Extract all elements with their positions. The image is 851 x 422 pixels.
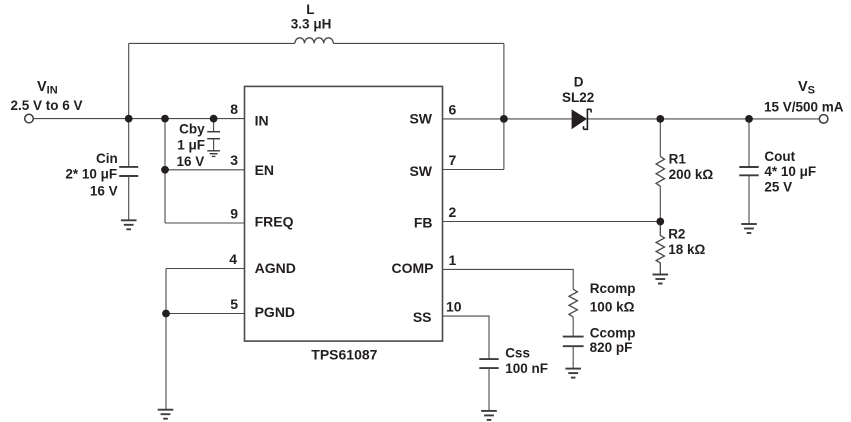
ground for Css — [481, 411, 497, 420]
svg-text:IN: IN — [255, 113, 269, 129]
svg-text:Cin: Cin — [96, 151, 118, 166]
resistor R1 zigzag — [656, 156, 664, 186]
wire: SW pin 7 — [443, 169, 504, 171]
diode D SL22 (schottky) — [572, 109, 592, 129]
svg-text:16 V: 16 V — [90, 183, 118, 198]
wire: AGND/PGND vertical to ground — [165, 269, 167, 410]
node: junction dot FB / R1 / R2 — [656, 218, 664, 226]
svg-text:AGND: AGND — [255, 260, 296, 276]
capacitor Ccomp plates — [563, 337, 584, 347]
svg-text:9: 9 — [230, 205, 238, 221]
svg-text:2* 10 μF: 2* 10 μF — [65, 167, 117, 182]
wire: VIN terminal to IC IN pin — [34, 118, 244, 120]
svg-text:FREQ: FREQ — [255, 213, 294, 229]
capacitor Css plates — [479, 359, 498, 368]
resistor R2 zigzag — [656, 222, 664, 275]
wire: vertical riser from input rail to top inductor rail — [128, 43, 130, 118]
svg-text:16 V: 16 V — [177, 154, 205, 169]
wire: Cin to ground — [128, 176, 130, 220]
terminal: VS output circle — [819, 115, 828, 124]
ground for Cout — [741, 224, 757, 233]
terminal: VIN input circle — [25, 114, 34, 123]
node: junction dot input rail / EN branch — [161, 115, 169, 123]
wire: Ccomp to ground — [572, 346, 574, 368]
svg-text:Css: Css — [505, 346, 530, 361]
svg-text:SL22: SL22 — [562, 90, 594, 105]
svg-text:Cby: Cby — [179, 121, 205, 136]
svg-text:Ccomp: Ccomp — [590, 326, 636, 341]
node: junction dot input rail / Cby — [210, 115, 218, 123]
inductor L (4 humps) — [295, 38, 333, 44]
svg-text:7: 7 — [449, 152, 457, 168]
svg-text:15 V/500 mA: 15 V/500 mA — [764, 99, 844, 114]
ground for Cin — [121, 220, 137, 229]
wire: FB pin to R1/R2 node — [443, 221, 660, 223]
wire: SW pin 6 to junction — [443, 118, 504, 120]
wire: Cout to ground — [748, 175, 750, 224]
svg-text:18 kΩ: 18 kΩ — [668, 242, 705, 257]
wire: R1 top stub — [659, 119, 661, 157]
node: junction dot PGND — [162, 310, 170, 318]
svg-text:3: 3 — [230, 152, 238, 168]
ground for R2 — [653, 275, 669, 284]
svg-text:820 pF: 820 pF — [590, 340, 633, 355]
svg-text:Cout: Cout — [764, 149, 795, 164]
svg-text:100 kΩ: 100 kΩ — [590, 299, 635, 314]
svg-text:SS: SS — [413, 309, 432, 325]
wire: AGND pin — [166, 268, 244, 270]
wire: EN pin — [165, 169, 244, 171]
op-amp: IC body TPS61087 — [245, 86, 443, 341]
wire: output rail junction to diode anode — [504, 118, 572, 120]
svg-text:1 μF: 1 μF — [177, 138, 205, 153]
ground for Ccomp — [565, 369, 581, 378]
svg-text:5: 5 — [230, 296, 238, 312]
node: junction dot output rail / R1 — [656, 115, 664, 123]
svg-text:R2: R2 — [668, 227, 685, 242]
wire: Cin branch down from input rail — [128, 119, 130, 167]
capacitor Cin plates — [119, 167, 138, 176]
svg-text:25 V: 25 V — [764, 179, 792, 194]
wire: top rail left of inductor — [129, 42, 295, 44]
ground for Cby (small) — [207, 151, 220, 157]
node: junction dot SW/output rail — [500, 115, 508, 123]
svg-text:PGND: PGND — [255, 304, 295, 320]
svg-text:TPS61087: TPS61087 — [311, 347, 377, 363]
capacitor Cout plates — [739, 167, 758, 175]
wire: FREQ pin — [165, 222, 244, 224]
svg-text:Rcomp: Rcomp — [590, 281, 636, 296]
svg-text:2: 2 — [449, 204, 457, 220]
svg-text:VIN: VIN — [37, 79, 58, 97]
node: junction dot input rail / riser — [125, 115, 133, 123]
node: junction dot EN branch — [161, 166, 169, 174]
svg-text:200 kΩ: 200 kΩ — [669, 167, 714, 182]
node: junction dot output rail / Cout — [745, 115, 753, 123]
svg-text:D: D — [574, 74, 584, 89]
wire: PGND pin — [166, 313, 244, 315]
svg-text:SW: SW — [409, 163, 432, 179]
resistor Rcomp zigzag — [569, 289, 577, 317]
svg-text:FB: FB — [414, 215, 433, 231]
svg-text:COMP: COMP — [392, 260, 434, 276]
svg-text:3.3 μH: 3.3 μH — [291, 16, 332, 31]
wire: top rail right of inductor — [333, 42, 504, 44]
wire: COMP pin to Rcomp — [443, 269, 573, 289]
capacitor Cby plates — [207, 132, 220, 139]
svg-text:R1: R1 — [669, 152, 687, 167]
ground for AGND/PGND — [158, 410, 174, 419]
wire: R1 bottom stub — [659, 186, 661, 222]
svg-text:VS: VS — [798, 79, 815, 97]
wire: Rcomp to Ccomp — [572, 317, 574, 337]
svg-text:1: 1 — [449, 252, 457, 268]
svg-text:100 nF: 100 nF — [505, 361, 548, 376]
svg-text:8: 8 — [230, 101, 238, 117]
wire: SS pin to Css — [443, 316, 489, 359]
svg-text:L: L — [306, 2, 314, 17]
svg-text:6: 6 — [449, 101, 457, 117]
svg-text:10: 10 — [446, 299, 462, 315]
wire: Css to ground — [488, 368, 490, 411]
svg-text:2.5 V to 6 V: 2.5 V to 6 V — [11, 98, 83, 113]
svg-text:4* 10 μF: 4* 10 μF — [764, 164, 816, 179]
wire: EN/FREQ branch vertical — [164, 119, 166, 223]
wire: Cby stub from input rail — [213, 119, 215, 132]
wire: Cout stub from output rail — [748, 119, 750, 167]
wire: Cby to small ground — [213, 139, 215, 151]
svg-text:SW: SW — [409, 111, 432, 127]
svg-text:4: 4 — [229, 251, 237, 267]
svg-text:EN: EN — [255, 162, 274, 178]
wire: diode cathode to VS terminal — [587, 118, 819, 120]
wire: vertical drop from top rail to SW pin 7 — [503, 43, 505, 169]
